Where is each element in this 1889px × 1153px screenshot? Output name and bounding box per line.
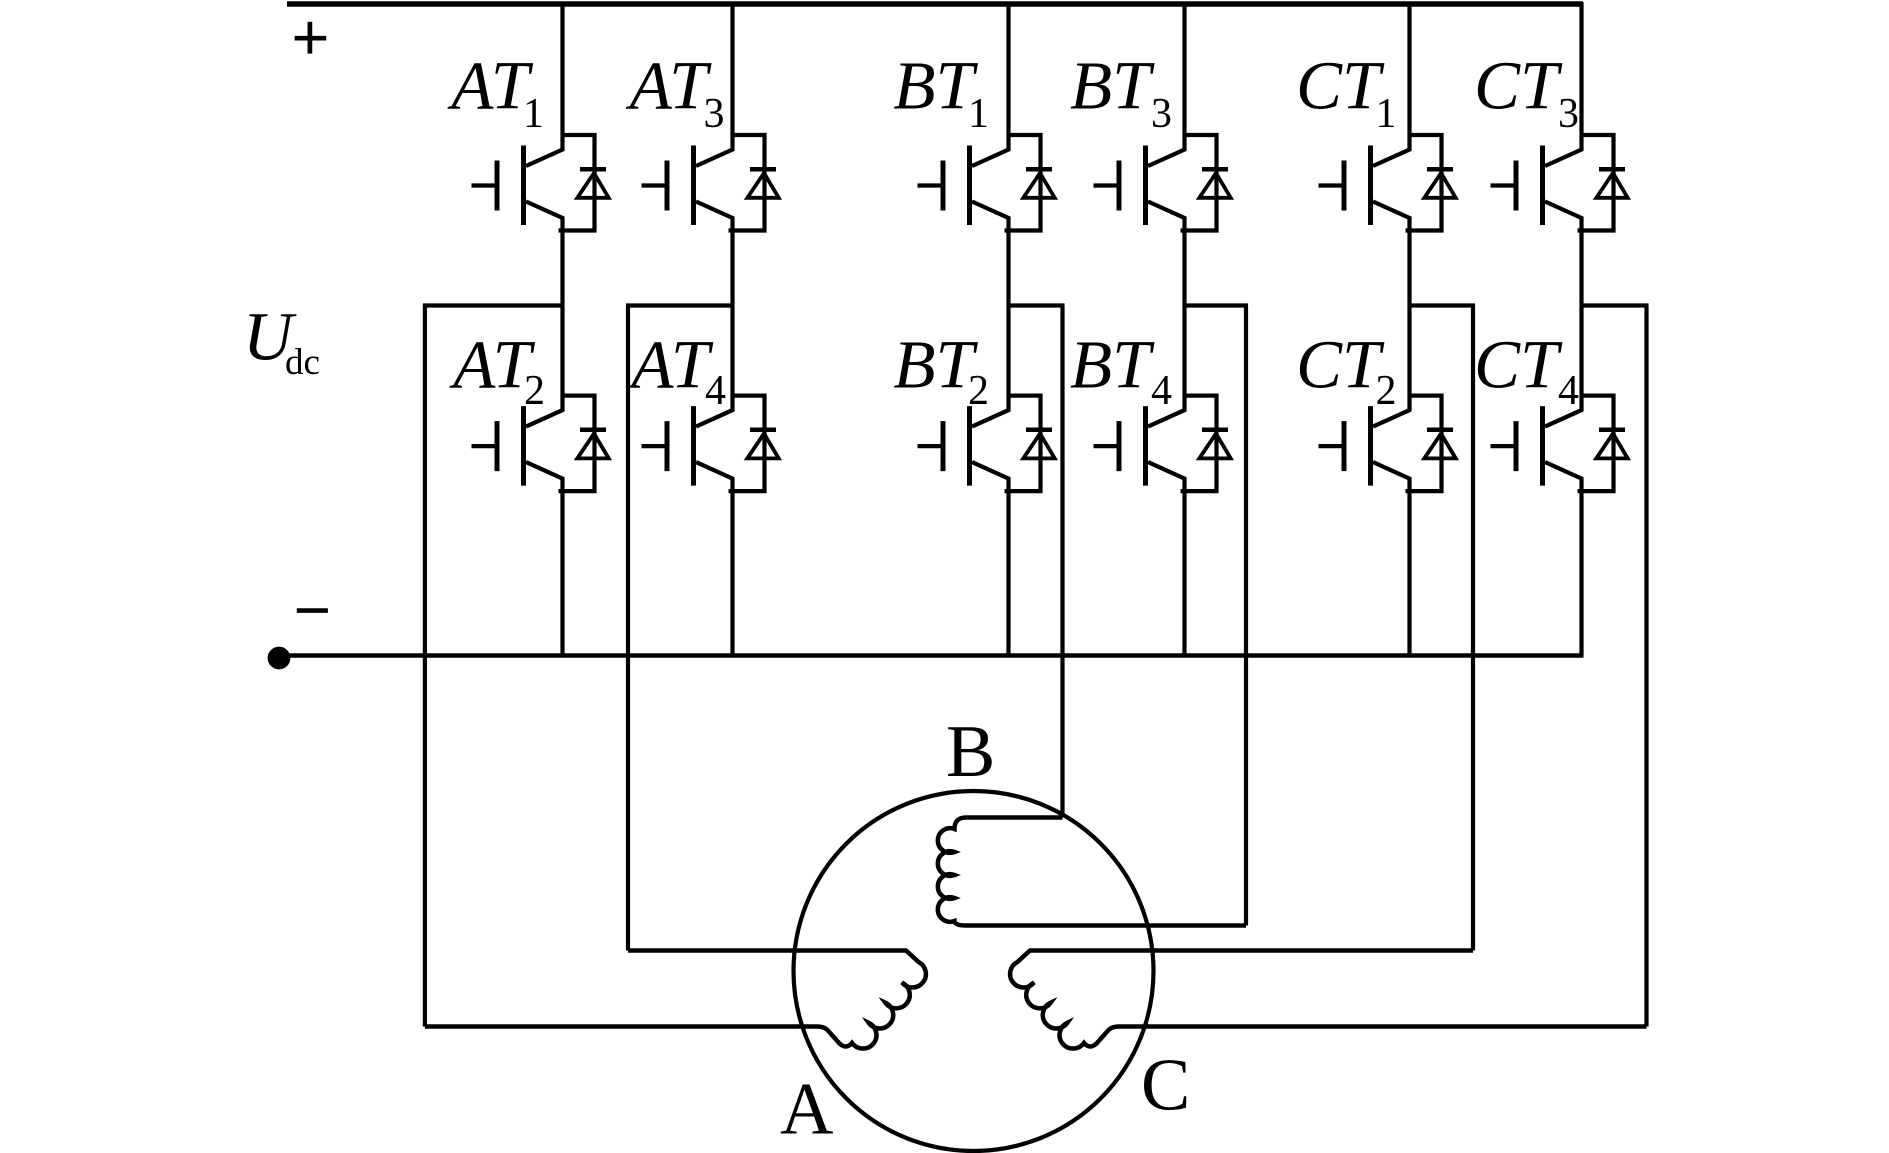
svg-text:2: 2 (524, 368, 545, 414)
svg-text:1: 1 (523, 91, 544, 137)
svg-text:AT: AT (449, 327, 536, 403)
svg-text:CT: CT (1296, 327, 1385, 403)
svg-text:4: 4 (1558, 368, 1579, 414)
svg-text:2: 2 (1376, 368, 1397, 414)
svg-text:1: 1 (1376, 91, 1397, 137)
svg-text:dc: dc (285, 342, 320, 383)
svg-text:3: 3 (1558, 91, 1579, 137)
svg-text:AT: AT (627, 327, 714, 403)
svg-text:BT: BT (1070, 327, 1155, 403)
svg-text:BT: BT (1070, 48, 1155, 124)
svg-text:4: 4 (1151, 368, 1172, 414)
svg-text:AT: AT (447, 48, 534, 124)
svg-text:A: A (780, 1069, 833, 1151)
svg-text:1: 1 (968, 91, 989, 137)
svg-text:BT: BT (893, 48, 978, 124)
svg-text:C: C (1141, 1045, 1190, 1127)
svg-text:CT: CT (1296, 48, 1385, 124)
svg-text:CT: CT (1474, 48, 1563, 124)
svg-text:AT: AT (626, 48, 713, 124)
svg-text:BT: BT (893, 327, 978, 403)
svg-text:3: 3 (704, 91, 725, 137)
svg-text:B: B (946, 711, 995, 793)
svg-text:3: 3 (1151, 91, 1172, 137)
svg-text:CT: CT (1474, 327, 1563, 403)
svg-text:2: 2 (968, 368, 989, 414)
svg-text:4: 4 (705, 368, 726, 414)
